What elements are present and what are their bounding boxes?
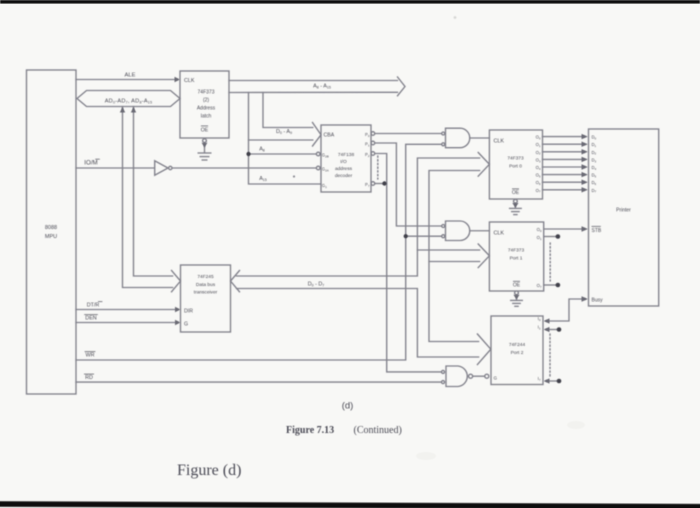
wire data bus upper line from 74F245 to riser A [237,158,480,276]
wire Port1 O0 to printer STB [544,228,584,230]
svg-text:Printer: Printer [616,208,631,214]
wire gate G3 output to Port2 G pin [473,375,485,377]
wire Busy from printer to Port2 I0 [547,299,586,321]
gate G1 input bubble upper [442,132,445,135]
AND gate G2 body for Port1 clock [446,221,470,241]
arrowhead printer D1 [582,142,589,147]
ground bars under Port1 [511,299,523,301]
arrowhead printer D3 [582,157,589,162]
junction node WR branch [404,234,408,238]
bottom black border bar [0,501,700,508]
svg-text:IO/M: IO/M [84,160,97,167]
wire Port0 O5 to printer D5 [543,174,585,176]
svg-text:(Continued): (Continued) [354,425,402,436]
svg-text:RD: RD [85,375,93,381]
74F373 address latch U2 box [180,71,229,138]
svg-text:CBA: CBA [324,133,335,139]
wire drop to CBA upper line at x=263 [263,93,313,128]
arrowhead bus tap x=133.5 pointing up [131,107,136,113]
wire Port2 I1 stub [547,329,558,331]
open chevron arrow into Port2 data input [477,334,490,365]
wire node G2B branch from junction [249,153,317,155]
open chevron arrow into Port1 data input [478,244,489,268]
decoder output bubble P0 [371,132,375,136]
arrowhead printer D5 [582,172,589,177]
decoder output bubble P2 [371,152,375,156]
arrowhead bus tap x=122.5 pointing up [120,107,125,113]
arrowhead Busy into Port2 I0 [544,318,550,323]
arrowhead printer D0 [582,134,589,139]
arrowhead Port2 I7 [544,378,550,383]
74F138 I/O address decoder U3 box [321,125,371,192]
svg-text:74F373: 74F373 [198,90,215,96]
gate G3 output bubble [469,374,473,378]
wire data bus lower line from 74F245 to Port2 bus bottom [237,289,479,358]
svg-text:Busy: Busy [592,298,604,304]
decoder G2B input bubble [316,152,320,156]
svg-text:OE: OE [513,283,521,289]
ground stem under latch [204,143,206,153]
dotted bracket for omitted Port2 inputs [549,334,551,377]
arrowhead Busy at printer edge [582,296,589,301]
svg-text:74F138: 74F138 [338,152,355,158]
svg-text:DEN: DEN [85,316,96,322]
svg-text:74F373: 74F373 [508,248,525,254]
arrowhead printer D6 [582,180,589,185]
Port0 OE pin bubble [514,199,518,203]
gate G3 input bubble lower [442,381,445,384]
AND gate G1 body for Port0 clock [446,128,470,148]
inverter U8 triangle [155,161,168,175]
wire Port0 O0 to printer D0 [543,136,585,138]
wire drop to decoder G1 at x=248.5 [249,93,322,185]
gate G2 input bubble lower [442,235,445,238]
arrowhead printer D2 [582,149,589,154]
svg-text:CLK: CLK [494,139,505,145]
bus banner AD0-AD7 AD8-A15 hexagon between MPU and latch [77,91,180,107]
svg-text:ALE: ALE [125,73,136,79]
wire bus tap drop at x=133.5 down to 74F245 upper input [134,107,173,277]
wire Port0 O7 to printer D7 [543,189,585,191]
wire RD from MPU to gate3 input [76,381,441,383]
svg-text:74F245: 74F245 [197,274,214,280]
wire Port0 O1 to printer D1 [543,143,585,145]
ground stem under Port0 [514,203,516,208]
svg-text:transceiver: transceiver [194,290,218,296]
gate G2 input bubble upper [442,225,445,228]
faint smudge below caption [416,452,436,460]
arrowhead ALE into latch [175,77,181,82]
gate G1 input bubble lower [442,143,445,146]
stray small node near A15 label [293,175,295,177]
ground arrow under latch [202,143,208,148]
wire Port2 I7 stub [547,380,558,382]
dotted bracket for omitted Port1 outputs [549,243,551,281]
wire riser B branch to Port1 bus bottom [429,261,480,263]
Port2 G input bubble [485,374,489,378]
8088 MPU U1 box [27,70,77,394]
svg-text:DT/R: DT/R [87,303,100,309]
ground bars under latch [198,152,211,154]
svg-text:decoder: decoder [335,173,353,179]
decoder output bubble P1 [371,141,375,145]
wire branch to CBA lower line [249,139,313,141]
wire riser B Port0 bus bottom to Port2 bus top [429,171,480,342]
wire ALE from MPU to latch CLK [76,79,177,81]
gate G3 input bubble upper [442,370,445,373]
dotted bracket for omitted decoder outputs [377,156,379,179]
svg-text:OE: OE [201,128,209,134]
inverter U8 output bubble [169,166,172,169]
ground arrow under Port0 [512,203,518,208]
wire P1 riser to gate2 [375,143,442,226]
svg-text:address: address [335,166,353,172]
wire P0 to gate1 [375,133,442,135]
latch OE pin bubble [203,139,207,143]
wire P7 stub [375,183,384,185]
wire P2 riser to gate3 [375,154,442,372]
svg-text:MPU: MPU [45,234,57,240]
wire riser A branch to Port1 bus top [417,249,479,251]
wire IO/M from MPU to inverter [76,167,154,169]
wire Port0 O3 to printer D3 [543,158,585,160]
svg-text:AD0-AD7, AD8-A15: AD0-AD7, AD8-A15 [105,99,153,105]
svg-text:Address: Address [197,106,216,112]
wire Port0 O2 to printer D2 [543,151,585,153]
node terminal Port2 I1 [557,327,562,332]
svg-text:Port 1: Port 1 [510,256,523,262]
74F244 Port 2 U7 box [491,316,543,385]
svg-text:D0 - D7: D0 - D7 [308,282,325,288]
svg-text:DIR: DIR [184,309,193,315]
svg-text:CLK: CLK [184,78,195,84]
svg-text:8088: 8088 [45,225,57,231]
wire latch output pin2 / A-banner bottom edge [229,91,398,93]
AND gate G3 body for Port2 enable [446,366,467,387]
wire latch output pin1 / A-banner top edge [229,80,398,82]
svg-text:Port 0: Port 0 [509,164,522,170]
svg-text:STB: STB [592,228,602,234]
svg-text:74F244: 74F244 [509,342,526,348]
ground bars under Port0 [510,207,522,209]
svg-text:D0 - A9: D0 - A9 [276,129,292,135]
svg-text:G: G [184,322,188,328]
top black border bar [0,0,700,4]
svg-text:(2): (2) [203,98,209,104]
ground arrow under Port1 [513,295,519,300]
node terminal Port1 O7 [556,283,561,288]
open chevron arrow into decoder CBA [313,123,322,147]
node terminal Port1 O1 [556,234,561,239]
wire Port0 O4 to printer D4 [543,166,585,168]
svg-text:(d): (d) [342,401,354,412]
svg-text:latch: latch [201,114,212,120]
svg-text:74F373: 74F373 [507,156,524,162]
arrowhead Port2 I1 [544,327,550,332]
svg-text:I/O: I/O [340,159,347,165]
open chevron arrow into Port0 data input [478,153,489,177]
svg-text:WR: WR [86,353,95,359]
Port1 OE pin bubble [515,291,519,295]
wire bus tap drop at x=122.5 down to 74F245 lower input [123,107,173,288]
svg-text:Figure (d): Figure (d) [177,462,241,479]
arrowhead STB into printer [582,226,589,231]
74F373 Port 0 U5 box [489,130,542,199]
node terminal Port2 I7 [557,379,562,384]
wire Port1 O1 stub [544,236,556,238]
decoder G2A input bubble [316,166,320,170]
wire WR from MPU up riser to gate1 input [76,144,442,360]
svg-text:Figure 7.13: Figure 7.13 [286,425,334,436]
wire gate G1 output to Port0 CLK [470,137,490,139]
wire DT/R from MPU to 74F245 DIR [76,309,178,311]
wire WR branch to gate2 input [406,235,442,237]
wire inverter output to decoder G2A [172,167,316,169]
wire Port0 O6 to printer D6 [543,181,585,183]
svg-text:Data bus: Data bus [196,282,216,288]
decoder output bubble P7 [371,182,375,186]
open arrowhead of A8-A15 banner [398,77,406,96]
junction node at P7 stub [382,181,386,185]
arrowhead printer D7 [582,187,589,192]
74F245 data bus transceiver U4 box [181,265,231,332]
svg-text:Port 2: Port 2 [511,350,524,356]
open chevron arrow into 74F245 left side [172,271,181,292]
74F373 Port 1 U6 box [489,222,543,291]
wire gate G2 output to Port1 CLK [470,230,490,232]
junction node on G2B line [246,152,250,156]
ground stem under Port1 [516,295,518,300]
faint speck top middle [454,16,457,19]
arrowhead printer D4 [582,164,589,169]
svg-text:OE: OE [512,190,520,196]
open chevron arrow at 74F245 right side [231,271,240,292]
Printer box [589,129,659,306]
svg-text:CLK: CLK [494,231,505,237]
arrowhead DT/R into DIR pin [175,307,181,312]
wire Port1 O7 stub [544,284,556,286]
faint smudge right of caption [567,421,585,429]
svg-text:G: G [494,376,498,381]
wire DEN from MPU to 74F245 G [76,322,178,324]
arrowhead DEN into G pin [175,320,181,325]
